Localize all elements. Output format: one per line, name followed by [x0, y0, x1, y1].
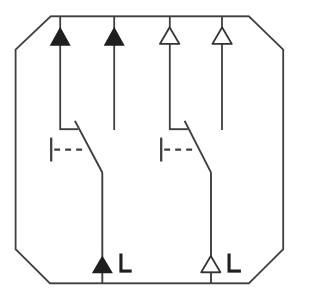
arrowhead: lamp output 4 (hollow)	[212, 27, 231, 44]
switch insert body outline	[16, 16, 284, 283]
wire: lamp output 2 riser	[113, 16, 115, 130]
arrowhead: lamp output 2 (filled)	[104, 27, 125, 46]
wire: switch S1 pole stem with pivot jog	[60, 16, 78, 129]
wire: lamp output 4 riser	[221, 16, 223, 130]
wire: switch S2 pole stem with pivot jog	[170, 16, 188, 129]
switch S2 actuator bar	[160, 138, 162, 162]
switch S1 actuator bar	[50, 138, 52, 162]
label L (feed 1)	[119, 254, 131, 273]
label L (feed 2)	[228, 254, 241, 273]
switch S2 actuator linkage (dashed)	[164, 149, 192, 151]
switch S1 contact lever	[75, 121, 102, 173]
arrowhead: lamp output 1 (filled)	[50, 27, 71, 46]
arrowhead: lamp output 3 (hollow)	[160, 27, 180, 44]
switch S1 actuator linkage (dashed)	[54, 149, 82, 151]
wire: live feed riser to switch S1	[101, 173, 103, 284]
switch S2 contact lever	[185, 121, 211, 173]
arrowhead: live feed L1 (filled)	[92, 255, 113, 273]
wire: live feed riser to switch S2	[210, 173, 212, 284]
arrowhead: live feed L2 (hollow)	[201, 256, 220, 272]
